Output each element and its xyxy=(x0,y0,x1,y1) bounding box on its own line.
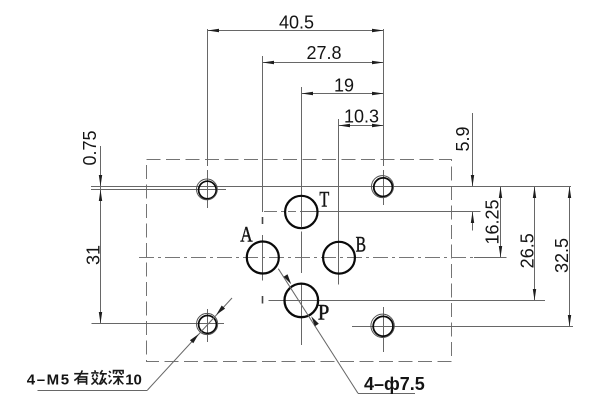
top-right mounting hole M5 xyxy=(374,178,393,197)
dimension 19 line xyxy=(302,93,384,95)
svg-text:B: B xyxy=(356,231,366,256)
svg-text:10.3: 10.3 xyxy=(344,106,379,126)
centerline: horizontal through port P extended to 26.5 dim xyxy=(269,300,546,302)
port B circle xyxy=(323,242,355,274)
dimension 27.8 line xyxy=(263,62,384,64)
svg-text:40.5: 40.5 xyxy=(279,13,314,33)
arrow down at top line xyxy=(99,175,102,187)
dimension 0.75 / 31 shared vertical line at left xyxy=(100,146,102,324)
centerline: vertical through bottom-right hole xyxy=(383,307,385,352)
svg-text:32.5: 32.5 xyxy=(552,238,572,273)
bottom-right mounting hole M5 xyxy=(373,316,393,336)
hanzi YOU (effective) xyxy=(74,370,88,384)
svg-text:A: A xyxy=(240,222,252,247)
svg-text:T: T xyxy=(319,186,329,211)
bottom-left mounting hole M5 xyxy=(199,316,217,334)
hanzi SHEN (deep) xyxy=(109,371,124,385)
svg-text:5.9: 5.9 xyxy=(453,126,473,151)
svg-text:26.5: 26.5 xyxy=(518,233,538,268)
wire: top edge reference line (through top-right hole centers) xyxy=(91,186,571,188)
extension line: vertical through ports T and P (19 dim) xyxy=(301,87,303,227)
svg-text:4–M5: 4–M5 xyxy=(27,371,71,388)
leader line for 4-ph7.5 callout through port P xyxy=(278,269,358,394)
centerline: horizontal through bottom-right hole (32.5 dim extension) xyxy=(352,326,573,328)
extension line: vertical through port A (27.8 dim) xyxy=(262,56,264,212)
svg-text:19: 19 xyxy=(334,76,354,96)
svg-text:0.75: 0.75 xyxy=(80,130,100,165)
centerline: horizontal through ports A and B xyxy=(139,257,474,259)
extension line: vertical through top-left hole (40.5 dim) xyxy=(207,29,209,166)
hanzi XIAO (effect) xyxy=(91,370,107,384)
centerline: horizontal through bottom-left hole (31 dim extension) xyxy=(92,323,225,325)
svg-text:27.8: 27.8 xyxy=(306,43,341,63)
arrow up at lower line (shared 0.75/31) xyxy=(99,190,102,202)
centerline: horizontal through port T xyxy=(264,211,296,213)
dimension 26.5 vertical line xyxy=(534,187,536,301)
top-left mounting hole M5 xyxy=(199,181,217,199)
dimension 10.3 line xyxy=(339,125,384,127)
port A circle xyxy=(247,242,279,274)
arrow down at bottom-left hole centerline xyxy=(99,312,102,324)
centerline: vertical dashes below A xyxy=(262,217,264,224)
centerline: vertical through bottom-left hole xyxy=(207,309,209,342)
svg-text:4–ф7.5: 4–ф7.5 xyxy=(364,374,425,394)
svg-text:16.25: 16.25 xyxy=(483,199,503,244)
port T circle xyxy=(285,196,317,228)
port P circle xyxy=(285,284,319,318)
extension line: vertical through port B (10.3 dim) xyxy=(338,119,340,285)
dimension 32.5 vertical line xyxy=(569,187,571,327)
svg-text:10: 10 xyxy=(125,371,142,388)
valve body dashed outline rectangle xyxy=(147,160,452,362)
svg-text:P: P xyxy=(318,300,330,325)
leader line for 4-M5 callout through bottom-left hole xyxy=(148,298,233,390)
wire: offset line 0.75 below (through top-left hole center) xyxy=(91,189,226,191)
svg-text:31: 31 xyxy=(84,245,104,265)
extension line: vertical through top-right hole (shared by 40.5/27.8/19/10.3) xyxy=(383,29,385,166)
dimension 5.9 vertical line xyxy=(472,113,474,187)
dimension 16.25 vertical line xyxy=(500,187,502,258)
dimension 40.5 line xyxy=(208,30,384,32)
